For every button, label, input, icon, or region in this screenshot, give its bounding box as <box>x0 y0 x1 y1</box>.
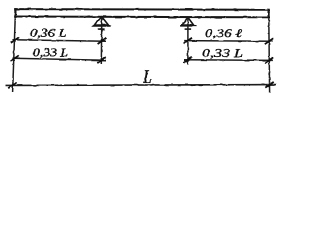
tick dim1 left end <box>98 38 106 44</box>
tick dim1 left start <box>11 37 19 43</box>
dim line 1 left <box>12 40 106 42</box>
tick dim2 left start <box>10 56 18 62</box>
label 0,33 L right <box>203 49 243 59</box>
support triangle T1 <box>92 17 111 29</box>
tick dim1 right start <box>184 38 192 44</box>
extension line right <box>268 18 271 92</box>
dim line 2 left <box>12 58 106 60</box>
dim line 1 right <box>184 40 273 43</box>
center line under T1 <box>100 18 103 65</box>
dim line bottom L <box>6 84 276 87</box>
support triangle T2 <box>180 17 196 29</box>
tick dim2 right end <box>265 57 273 63</box>
tick dim2 left end <box>97 57 105 63</box>
tick bottom right <box>265 82 273 88</box>
dim line 2 right <box>184 59 273 62</box>
label 0,36 l right <box>206 29 242 39</box>
extension line left <box>13 18 16 92</box>
tick bottom left <box>8 82 16 88</box>
label L bottom <box>143 70 151 82</box>
label 0,36 L left <box>31 29 66 39</box>
tick dim2 right start <box>184 57 192 63</box>
tick dim1 right end <box>265 38 273 44</box>
label 0,33 L left <box>34 49 68 59</box>
beam <box>14 8 270 18</box>
center line under T2 <box>187 18 189 65</box>
